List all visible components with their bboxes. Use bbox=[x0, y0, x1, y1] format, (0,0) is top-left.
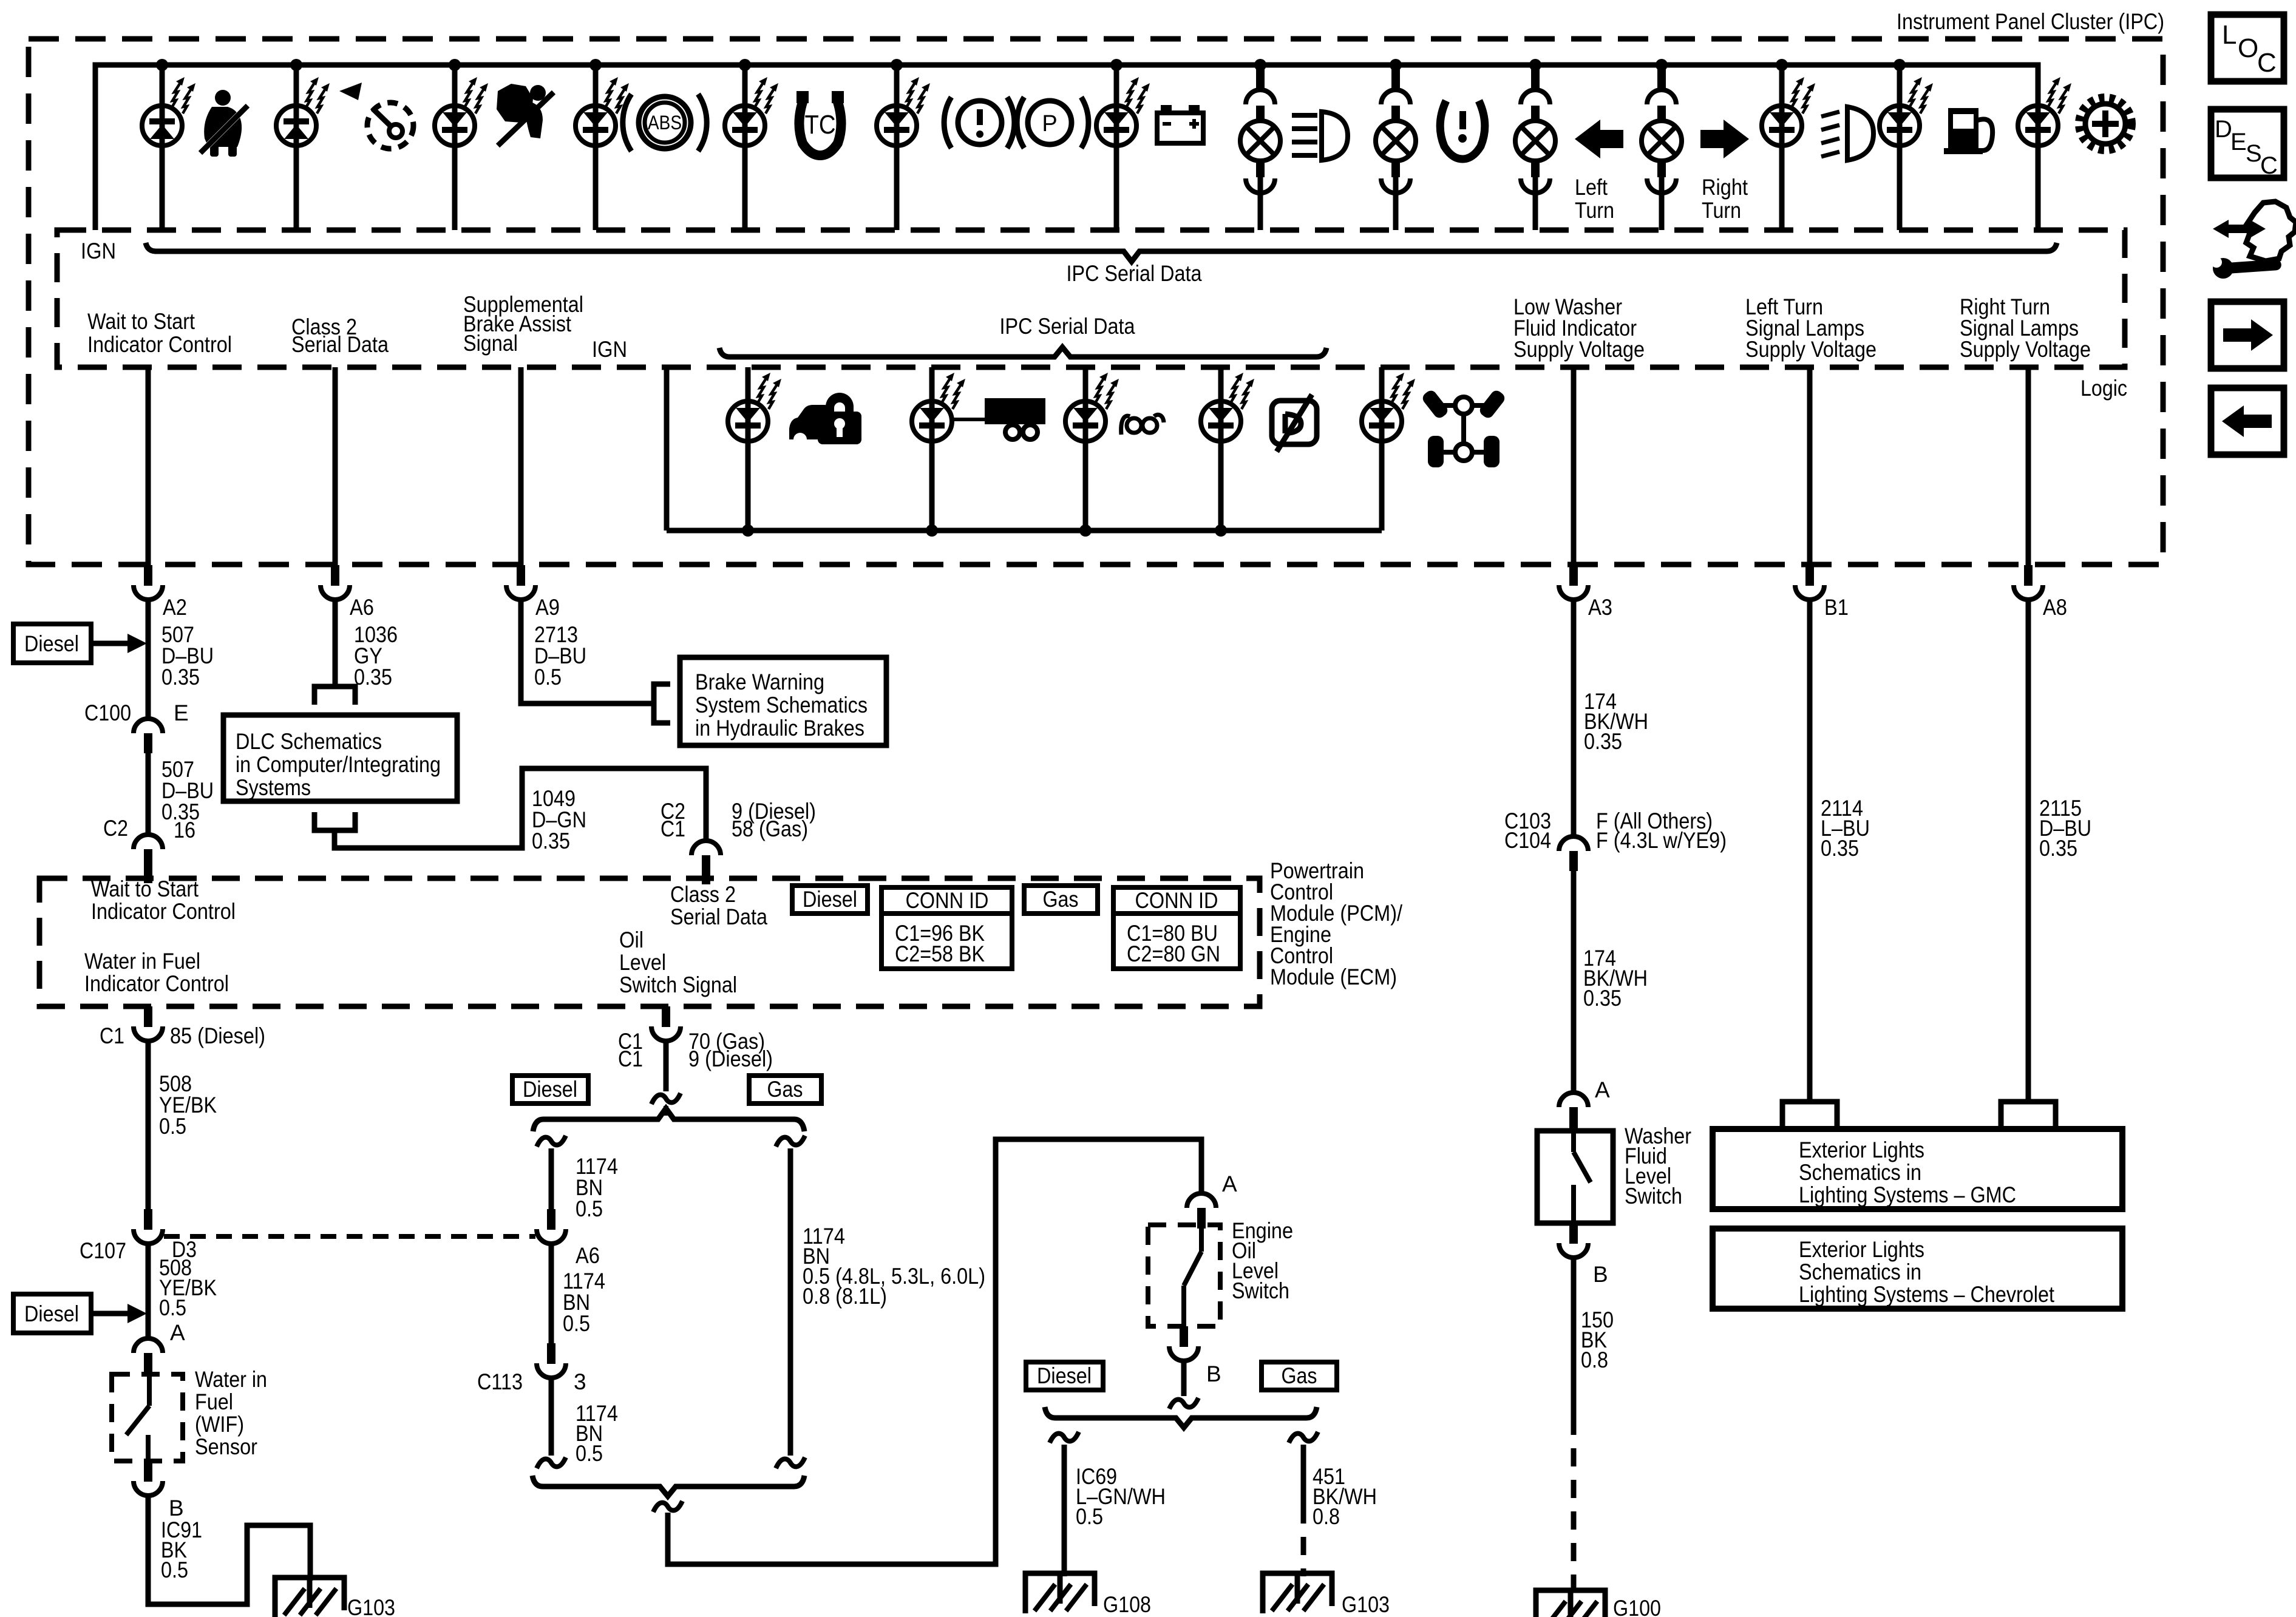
icon: speed warning gauge bbox=[339, 83, 413, 149]
svg-text:in Hydraulic Brakes: in Hydraulic Brakes bbox=[695, 716, 864, 741]
icon: fasten seat belt bbox=[200, 90, 248, 157]
svg-text:G103: G103 bbox=[347, 1595, 395, 1617]
label Water in Fuel (WIF) Sensor bbox=[195, 1367, 267, 1459]
wire: circuit 2713 to brake warning schematics bbox=[521, 599, 651, 703]
LED indicator lamp: check gauges bbox=[1201, 373, 1254, 441]
label Supplemental Brake Assist Signal (logic pin) bbox=[463, 292, 583, 356]
junction on ignition bus at x=1839 bbox=[1110, 59, 1123, 71]
box: Engine Oil Level Switch dashed bbox=[1148, 1225, 1220, 1326]
svg-text:Diesel: Diesel bbox=[523, 1077, 577, 1102]
wire: oil level switch signal bbox=[664, 1039, 669, 1091]
wire label 1174 BN 0.5 (diesel lower) bbox=[576, 1401, 618, 1466]
icon: left turn arrow bbox=[1575, 120, 1623, 158]
svg-text:D: D bbox=[2215, 116, 2232, 143]
junction on lower bus at x=1535 bbox=[926, 524, 938, 537]
svg-text:Supply Voltage: Supply Voltage bbox=[1513, 337, 1645, 362]
svg-text:Indicator Control: Indicator Control bbox=[84, 971, 229, 996]
wire: ignition feed bus (top) bbox=[95, 65, 2038, 230]
junction on ignition bus at x=2529 bbox=[1529, 59, 1541, 71]
svg-text:0.35: 0.35 bbox=[1821, 836, 1859, 861]
LED indicator lamp: charge (battery) bbox=[1096, 77, 1150, 146]
icon: trailer bbox=[951, 398, 1045, 439]
svg-text:Water in Fuel: Water in Fuel bbox=[84, 949, 200, 974]
svg-text:B: B bbox=[1206, 1361, 1221, 1386]
label Wait to Start Indicator Control (PCM pin) bbox=[91, 876, 236, 924]
wire: circuit IC69 to ground bbox=[1062, 1445, 1067, 1576]
wire: oil level switch return bbox=[1181, 1360, 1187, 1396]
wire: bulb column lower lead x=2737 bbox=[1659, 177, 1665, 230]
svg-text:C2=58 BK: C2=58 BK bbox=[895, 941, 985, 966]
connector label C103 C104 bbox=[1504, 808, 1551, 853]
wire: IGN drop to lower bus bbox=[664, 367, 670, 531]
svg-text:C113: C113 bbox=[477, 1369, 523, 1394]
label Low Washer Fluid Indicator Supply Voltage (logic pin) bbox=[1513, 294, 1645, 362]
svg-text:TC: TC bbox=[805, 110, 836, 140]
nav box DESC bbox=[2211, 109, 2284, 179]
connector pin B at engine oil level switch bbox=[1169, 1326, 1198, 1361]
icon: airbag bbox=[497, 84, 554, 146]
wire: circuit 2115 bbox=[2026, 599, 2031, 1102]
icon: headlamp beams bbox=[1292, 112, 1348, 160]
svg-text:(WIF): (WIF) bbox=[195, 1412, 244, 1437]
svg-text:Fuel: Fuel bbox=[195, 1389, 233, 1414]
wire: circuit 507 segment 1 bbox=[146, 599, 151, 719]
connector C2 bbox=[134, 835, 163, 883]
svg-text:0.5: 0.5 bbox=[534, 665, 562, 690]
LED indicator lamp: tow/haul (trailer) bbox=[912, 373, 965, 441]
svg-text:0.5: 0.5 bbox=[1076, 1504, 1103, 1529]
wire: indicator LED column x=1477 bbox=[894, 65, 900, 230]
svg-text:Logic: Logic bbox=[2080, 376, 2127, 401]
wire: circuit 508 segment 2 bbox=[146, 1243, 151, 1338]
wire: lower LED column x=1535 bbox=[929, 367, 935, 531]
wire label 508 YE/BK 0.5 (lower) bbox=[159, 1255, 217, 1320]
svg-text:ABS: ABS bbox=[648, 112, 682, 134]
wire label 1174 BN 0.5 (diesel upper) bbox=[576, 1154, 618, 1221]
wire: circuit 1174 diesel segment 2 bbox=[549, 1243, 554, 1343]
svg-text:0.8 (8.1L): 0.8 (8.1L) bbox=[803, 1284, 887, 1309]
svg-text:Lighting Systems – Chevrolet: Lighting Systems – Chevrolet bbox=[1799, 1282, 2055, 1307]
bulb lamp: right turn indicator bbox=[1642, 65, 1682, 193]
switch contacts engine oil level switch bbox=[1184, 1227, 1201, 1326]
svg-text:Serial Data: Serial Data bbox=[670, 904, 767, 929]
svg-text:G100: G100 bbox=[1613, 1596, 1661, 1617]
bulb lamp: tire pressure indicator bbox=[1376, 65, 1416, 193]
wire: indicator LED column x=3357 bbox=[2036, 65, 2041, 230]
LED indicator lamp: service bbox=[2018, 77, 2071, 146]
connector pin A at washer fluid level switch bbox=[1559, 1093, 1588, 1133]
svg-text:Water in: Water in bbox=[195, 1367, 267, 1392]
wire: A2 lead inside IPC bbox=[146, 367, 151, 565]
svg-text:0.5: 0.5 bbox=[563, 1311, 590, 1336]
svg-text:L: L bbox=[2222, 20, 2237, 50]
switch contacts WIF sensor bbox=[126, 1373, 149, 1461]
icon: service gear bbox=[2080, 98, 2131, 149]
svg-text:0.5: 0.5 bbox=[159, 1295, 186, 1320]
wire: A3 lead inside IPC bbox=[1571, 367, 1577, 565]
label Oil Level Switch Signal (PCM pin) bbox=[619, 927, 737, 997]
svg-text:Serial Data: Serial Data bbox=[291, 332, 389, 357]
ground G103 bbox=[1263, 1573, 1332, 1613]
junction on ignition bus at x=981 bbox=[589, 59, 602, 71]
box: Water in Fuel (WIF) Sensor dashed bbox=[112, 1374, 183, 1461]
connector pin B at washer fluid level switch bbox=[1559, 1223, 1588, 1258]
svg-text:0.35: 0.35 bbox=[2039, 836, 2077, 861]
svg-text:C100: C100 bbox=[84, 700, 131, 725]
svg-text:E: E bbox=[174, 700, 189, 725]
wire: circuit IC91 to ground bbox=[148, 1495, 310, 1604]
svg-text:Gas: Gas bbox=[1282, 1363, 1317, 1388]
wire: circuit 507 segment 2 bbox=[146, 753, 151, 835]
wire: circuit 1049 routing bbox=[335, 768, 706, 848]
svg-text:A8: A8 bbox=[2043, 595, 2067, 620]
wire: lower LED bus bbox=[667, 528, 1382, 534]
svg-text:3: 3 bbox=[574, 1369, 586, 1394]
wire: indicator LED column x=1839 bbox=[1114, 65, 1119, 230]
svg-text:G103: G103 bbox=[1342, 1592, 1390, 1617]
wire: circuit 1174 diesel segment 3 bbox=[549, 1377, 554, 1456]
label box Diesel (1174 split) bbox=[512, 1076, 588, 1103]
nav box back arrow bbox=[2211, 388, 2284, 455]
svg-text:Sensor: Sensor bbox=[195, 1434, 257, 1459]
LED indicator lamp: airbag bbox=[435, 77, 488, 146]
icon: right turn arrow bbox=[1700, 120, 1749, 158]
wire label 508 YE/BK 0.5 (upper) bbox=[159, 1071, 217, 1139]
connector stub to exterior lights Chevrolet bbox=[2001, 1102, 2056, 1127]
wire label 174 BK/WH 0.35 (lower) bbox=[1583, 946, 1648, 1011]
junction on ignition bus at x=488 bbox=[290, 59, 302, 71]
svg-text:Module (ECM): Module (ECM) bbox=[1270, 964, 1397, 989]
wire: indicator LED column x=488 bbox=[294, 65, 299, 230]
box: Brake Warning System Schematics in Hydraulic Brakes bbox=[680, 657, 886, 745]
svg-text:S: S bbox=[2246, 140, 2262, 167]
bulb lamp: left turn indicator bbox=[1515, 65, 1555, 193]
icon: park brake (P) bbox=[1017, 97, 1089, 148]
svg-text:A: A bbox=[1595, 1077, 1610, 1102]
junction on lower bus at x=1788 bbox=[1079, 524, 1092, 537]
nav box LOC bbox=[2211, 15, 2284, 81]
wire label 507 D-BU 0.35 (upper) bbox=[161, 622, 214, 690]
wire label 451 BK/WH 0.8 bbox=[1313, 1464, 1377, 1529]
brace: IPC Serial Data (row 1) bbox=[146, 243, 2057, 262]
svg-text:Indicator Control: Indicator Control bbox=[87, 332, 232, 357]
svg-text:0.5: 0.5 bbox=[159, 1114, 186, 1139]
icon: brake warning (!) bbox=[944, 97, 1014, 148]
wire label 507 D-BU 0.35 (lower) bbox=[161, 757, 214, 824]
label box Gas (PCM conn id) bbox=[1024, 886, 1098, 914]
svg-text:Diesel: Diesel bbox=[803, 887, 857, 912]
wire: circuit 1174 diesel segment 1 bbox=[549, 1148, 554, 1209]
wire label 1174 BN 0.5/0.8 bbox=[803, 1224, 985, 1309]
wire: circuit 2114 bbox=[1807, 599, 1813, 1102]
connector pin A8 at IPC bbox=[2014, 565, 2043, 600]
svg-text:Indicator Control: Indicator Control bbox=[91, 899, 236, 924]
pin label F (All Others) F (4.3L w/YE9) bbox=[1596, 808, 1727, 853]
wire: circuit 150 dashed segment to ground bbox=[1571, 1417, 1577, 1593]
wire: circuit 451 dashed segment to ground bbox=[1301, 1505, 1306, 1576]
svg-text:Turn: Turn bbox=[1702, 198, 1741, 223]
svg-text:0.8: 0.8 bbox=[1581, 1347, 1608, 1372]
svg-text:E: E bbox=[2230, 129, 2247, 155]
svg-text:C: C bbox=[2260, 152, 2278, 179]
wire: indicator LED column x=1227 bbox=[742, 65, 748, 230]
wire: circuit 174 segment 2 bbox=[1571, 871, 1577, 1093]
svg-text:Oil: Oil bbox=[619, 927, 644, 952]
svg-text:9 (Diesel): 9 (Diesel) bbox=[688, 1046, 773, 1071]
svg-text:A6: A6 bbox=[350, 595, 374, 620]
table CONN ID (gas) bbox=[1113, 887, 1240, 969]
svg-text:Left: Left bbox=[1575, 175, 1608, 200]
icon: check gauges (crossed) bbox=[1272, 395, 1317, 452]
connector stub to brake warning schematics bbox=[654, 684, 670, 723]
svg-text:Exterior Lights: Exterior Lights bbox=[1799, 1137, 1924, 1162]
wire: lower LED column x=2276 bbox=[1379, 367, 1385, 531]
svg-text:IPC Serial Data: IPC Serial Data bbox=[1000, 314, 1135, 339]
connector pin C1 C1 (oil level switch signal) bbox=[651, 1006, 681, 1041]
wire label IC91 BK 0.5 bbox=[161, 1517, 202, 1582]
label box Diesel (ground split) bbox=[1026, 1362, 1103, 1390]
svg-text:Gas: Gas bbox=[1043, 887, 1079, 912]
svg-text:C1: C1 bbox=[661, 816, 685, 841]
svg-text:Level: Level bbox=[619, 950, 666, 975]
box: Exterior Lights Schematics in Lighting Systems - Chevrolet bbox=[1713, 1229, 2122, 1309]
svg-text:C2: C2 bbox=[103, 816, 128, 841]
connector stub from DLC schematics (bottom) bbox=[314, 812, 355, 830]
svg-text:A3: A3 bbox=[1588, 595, 1612, 620]
junction on ignition bus at x=1227 bbox=[739, 59, 751, 71]
box: Exterior Lights Schematics in Lighting Systems - GMC bbox=[1713, 1129, 2122, 1209]
label box Gas (ground split) bbox=[1262, 1362, 1337, 1390]
connector A6 (in-line) bbox=[537, 1209, 566, 1244]
svg-text:System Schematics: System Schematics bbox=[695, 693, 868, 717]
wire: indicator LED column x=267 bbox=[160, 65, 165, 230]
svg-text:F (4.3L w/YE9): F (4.3L w/YE9) bbox=[1596, 828, 1727, 853]
LED indicator lamp: seat belt bbox=[142, 77, 195, 146]
wire: indicator LED column x=749 bbox=[452, 65, 458, 230]
box: Washer Fluid Level Switch bbox=[1537, 1131, 1613, 1223]
wire: indicator LED column x=3129 bbox=[1897, 65, 1903, 230]
connector label C1 C1 bbox=[618, 1029, 643, 1071]
connector C113 bbox=[537, 1343, 566, 1378]
wire break (diesel branch top) bbox=[537, 1136, 566, 1147]
wire: B1 lead inside IPC bbox=[1807, 367, 1813, 565]
wire break (splice) below C1 bbox=[651, 1093, 681, 1104]
junction on ignition bus at x=2935 bbox=[1776, 59, 1788, 71]
svg-text:0.5: 0.5 bbox=[576, 1196, 603, 1221]
junction on ignition bus at x=749 bbox=[449, 59, 461, 71]
svg-text:85 (Diesel): 85 (Diesel) bbox=[170, 1023, 265, 1048]
connector pin A at WIF sensor bbox=[134, 1338, 163, 1373]
connector pin A3 at IPC bbox=[1559, 565, 1588, 600]
connector C103/C104 bbox=[1559, 836, 1588, 871]
connector pin A at engine oil level switch bbox=[1187, 1193, 1216, 1229]
svg-text:Diesel: Diesel bbox=[24, 631, 79, 656]
icon: glow plug coil bbox=[1121, 415, 1164, 435]
connector C107 bbox=[134, 1209, 163, 1244]
switch contacts washer fluid level switch bbox=[1574, 1131, 1591, 1223]
label Washer Fluid Level Switch bbox=[1625, 1124, 1691, 1209]
svg-text:Diesel: Diesel bbox=[24, 1301, 79, 1326]
junction on ignition bus at x=1477 bbox=[891, 59, 903, 71]
LED indicator lamp: security bbox=[728, 373, 781, 441]
table CONN ID (diesel) bbox=[881, 887, 1012, 969]
icon: four wheel drive driveline bbox=[1421, 388, 1507, 467]
wire: stub into split brace bbox=[664, 1106, 668, 1116]
junction on ignition bus at x=2299 bbox=[1390, 59, 1402, 71]
svg-text:Switch: Switch bbox=[1625, 1184, 1682, 1209]
svg-text:Class 2: Class 2 bbox=[670, 882, 736, 907]
svg-text:B: B bbox=[169, 1496, 184, 1520]
box: DLC Schematics in Computer/Integrating Systems bbox=[223, 715, 457, 801]
svg-text:0.8: 0.8 bbox=[1313, 1504, 1340, 1529]
callout box Diesel (A2 wire) bbox=[13, 624, 147, 663]
wire break (451 branch) bbox=[1289, 1432, 1318, 1443]
wire break (gas branch top) bbox=[776, 1136, 805, 1147]
icon: battery bbox=[1157, 105, 1203, 143]
svg-text:IGN: IGN bbox=[81, 239, 116, 263]
svg-text:Right: Right bbox=[1702, 175, 1748, 200]
wire break (diesel branch bottom) bbox=[537, 1457, 566, 1468]
LED indicator lamp: speed warning bbox=[276, 77, 330, 146]
svg-text:Systems: Systems bbox=[236, 775, 311, 800]
label Exterior Lights Schematics in Lighting Systems - GMC bbox=[1799, 1137, 2016, 1207]
wire: lower LED column x=1232 bbox=[746, 367, 751, 531]
wire label 1036 GY 0.35 bbox=[354, 622, 398, 690]
label Exterior Lights Schematics in Lighting Systems - Chevrolet bbox=[1799, 1237, 2055, 1307]
IPC Logic inner dashed box bbox=[57, 230, 2125, 367]
svg-text:Schematics in: Schematics in bbox=[1799, 1259, 1921, 1284]
svg-text:C107: C107 bbox=[80, 1238, 126, 1263]
svg-text:Gas: Gas bbox=[767, 1077, 803, 1102]
connector pin C1 (wait to start) bbox=[134, 1006, 163, 1041]
brace: split Diesel/Gas bbox=[533, 1108, 804, 1131]
svg-text:B: B bbox=[1593, 1262, 1608, 1287]
label box Gas (1174 split) bbox=[749, 1076, 821, 1103]
wire: A6 lead inside IPC bbox=[333, 367, 338, 565]
svg-text:0.35: 0.35 bbox=[1583, 986, 1622, 1011]
svg-text:A9: A9 bbox=[535, 595, 560, 620]
nav icon hand with wrench bbox=[2211, 202, 2296, 279]
junction on ignition bus at x=267 bbox=[156, 59, 168, 71]
connector pin B at WIF sensor bbox=[134, 1461, 163, 1496]
icon: fog lamps bbox=[1821, 107, 1873, 160]
junction on ignition bus at x=2076 bbox=[1254, 59, 1266, 71]
label Brake Warning System Schematics in Hydraulic Brakes bbox=[695, 670, 868, 741]
label Water in Fuel Indicator Control (PCM pin) bbox=[84, 949, 229, 996]
wire: circuit 174 segment 1 bbox=[1571, 599, 1577, 836]
label box Diesel (PCM conn id) bbox=[792, 886, 868, 914]
svg-text:C1: C1 bbox=[100, 1023, 124, 1048]
svg-text:Switch Signal: Switch Signal bbox=[619, 972, 737, 997]
wire: circuit 1174 to engine oil level switch bbox=[668, 1139, 1201, 1564]
label Class 2 Serial Data (logic pin) bbox=[291, 314, 389, 357]
svg-text:0.35: 0.35 bbox=[1584, 729, 1622, 754]
svg-text:CONN ID: CONN ID bbox=[906, 888, 989, 913]
LED indicator lamp: four wheel drive bbox=[1362, 373, 1415, 441]
connector pin A6 at IPC bbox=[321, 565, 350, 600]
junction on lower bus at x=2011 bbox=[1215, 524, 1227, 537]
connector pin B1 at IPC bbox=[1795, 565, 1824, 600]
svg-text:O: O bbox=[2238, 33, 2258, 63]
ground G103 (WIF) bbox=[275, 1578, 344, 1617]
svg-text:0.35: 0.35 bbox=[354, 665, 392, 690]
svg-text:C104: C104 bbox=[1504, 828, 1551, 853]
wire: A9 lead inside IPC bbox=[518, 367, 524, 565]
svg-text:Exterior Lights: Exterior Lights bbox=[1799, 1237, 1924, 1262]
label Left Turn Signal Lamps Supply Voltage (logic pin) bbox=[1745, 294, 1877, 362]
wire: circuit 1036 bbox=[333, 599, 338, 685]
pin label 70 (Gas) 9 (Diesel) bbox=[688, 1029, 773, 1071]
label DLC Schematics in Computer/Integrating Systems bbox=[236, 729, 441, 800]
svg-text:Supply Voltage: Supply Voltage bbox=[1745, 337, 1877, 362]
ground G108 bbox=[1025, 1573, 1095, 1613]
label Engine Oil Level Switch bbox=[1232, 1218, 1293, 1303]
svg-text:0.5: 0.5 bbox=[576, 1441, 603, 1466]
connector C100 bbox=[134, 719, 163, 753]
brace: merge Diesel/Gas bbox=[532, 1476, 804, 1496]
connector label C2 C1 bbox=[661, 799, 685, 841]
label Left Turn bbox=[1575, 175, 1614, 223]
svg-text:A: A bbox=[170, 1320, 185, 1345]
svg-text:B1: B1 bbox=[1824, 595, 1849, 620]
svg-text:58 (Gas): 58 (Gas) bbox=[732, 816, 808, 841]
wire: indicator LED column x=981 bbox=[593, 65, 599, 230]
box: Powertrain Control Module (PCM) / Engine Control Module (ECM) dashed bbox=[39, 878, 1260, 1006]
wire label 1174 BN 0.5 (diesel mid) bbox=[563, 1269, 605, 1336]
brace: split Diesel/Gas grounds bbox=[1045, 1407, 1317, 1428]
LED indicator lamp: fog lamps bbox=[1762, 77, 1815, 146]
label Class 2 Serial Data (PCM pin) bbox=[670, 882, 767, 929]
svg-text:Switch: Switch bbox=[1232, 1278, 1289, 1303]
svg-text:IGN: IGN bbox=[592, 337, 627, 362]
svg-text:A6: A6 bbox=[576, 1243, 600, 1268]
svg-text:0.35: 0.35 bbox=[532, 829, 570, 853]
connector pin A9 at IPC bbox=[506, 565, 535, 600]
wire break below merge brace bbox=[653, 1501, 682, 1512]
svg-text:Brake Warning: Brake Warning bbox=[695, 670, 824, 694]
label Wait to Start Indicator Control (logic pin) bbox=[87, 309, 232, 357]
svg-text:Supply Voltage: Supply Voltage bbox=[1960, 337, 2091, 362]
wire label 150 BK 0.8 bbox=[1581, 1307, 1614, 1372]
svg-text:Instrument Panel Cluster (IPC): Instrument Panel Cluster (IPC) bbox=[1897, 9, 2164, 34]
wire: circuit 1174 gas branch bbox=[788, 1148, 793, 1456]
label Right Turn bbox=[1702, 175, 1748, 223]
junction on ignition bus at x=3129 bbox=[1894, 59, 1906, 71]
wire label 1049 D-GN 0.35 bbox=[532, 786, 586, 853]
svg-text:IPC Serial Data: IPC Serial Data bbox=[1067, 261, 1202, 286]
pin label 9 (Diesel) 58 (Gas) bbox=[732, 799, 816, 841]
connector stub to DLC schematics bbox=[314, 686, 355, 705]
nav box forward arrow bbox=[2211, 302, 2284, 368]
wire: lower LED column x=1788 bbox=[1083, 367, 1089, 531]
connector stub to exterior lights GMC bbox=[1782, 1102, 1837, 1127]
bulb lamp: high beam indicator bbox=[1240, 65, 1280, 193]
svg-text:0.5: 0.5 bbox=[161, 1558, 188, 1582]
svg-text:0.35: 0.35 bbox=[161, 665, 200, 690]
LED indicator lamp: glow plug wait bbox=[1065, 373, 1119, 441]
wire label 2114 L-BU 0.35 bbox=[1821, 796, 1870, 861]
callout box Diesel (C107 wire) bbox=[13, 1294, 147, 1333]
wire: bulb column lower lead x=2076 bbox=[1258, 177, 1263, 230]
LED indicator lamp: brake / park brake bbox=[877, 77, 930, 146]
svg-text:Diesel: Diesel bbox=[1037, 1363, 1092, 1388]
brace: IPC Serial Data (row 2) bbox=[719, 347, 1326, 357]
svg-text:in Computer/Integrating: in Computer/Integrating bbox=[236, 752, 441, 777]
wire: lower LED column x=2011 bbox=[1218, 367, 1224, 531]
wire: C107 to A6 in-line connector (dashed) bbox=[164, 1234, 535, 1239]
junction on lower bus at x=1232 bbox=[742, 524, 754, 537]
wire label 2115 D-BU 0.35 bbox=[2039, 796, 2091, 861]
